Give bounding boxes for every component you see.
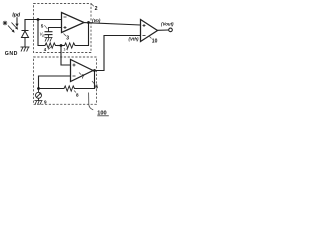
svg-text:14: 14 — [63, 47, 68, 52]
bias wire to non-inverting input — [49, 28, 62, 32]
comparator 10 — [141, 20, 158, 42]
arrowhead on source — [39, 93, 41, 95]
feedback wire to output — [77, 23, 89, 46]
output terminal circle — [169, 28, 173, 32]
svg-text:(Vout): (Vout) — [161, 22, 174, 27]
svg-text:5: 5 — [41, 23, 44, 28]
ground (source 9) — [35, 101, 43, 105]
label 8 — [74, 91, 79, 98]
plus mark comparator — [143, 24, 146, 27]
output wire — [158, 29, 169, 31]
label 3 — [64, 34, 70, 42]
op-amp 3 — [62, 13, 85, 33]
svg-text:3: 3 — [66, 36, 69, 42]
minus mark (inverting) — [64, 16, 67, 18]
label 10 — [150, 37, 158, 45]
plus mark (non-inverting) — [64, 26, 67, 29]
label 2 — [91, 4, 98, 12]
node junction dot — [37, 18, 40, 21]
node midpoint dot — [60, 44, 63, 47]
plus mark op-amp 7 — [73, 64, 76, 67]
svg-text:10: 10 — [152, 39, 158, 45]
svg-text:9: 9 — [44, 100, 47, 105]
output node dot op-amp 7 — [93, 69, 96, 72]
svg-text:2: 2 — [95, 6, 98, 12]
svg-text:(Vth): (Vth) — [129, 36, 140, 41]
wire midpoint to op-amp 7 input — [61, 46, 71, 66]
label 7 — [79, 73, 85, 81]
minus mark op-amp 7 — [73, 75, 76, 77]
svg-text:8: 8 — [76, 93, 79, 98]
node dot bottom left — [37, 87, 40, 90]
ground (photodiode) — [21, 47, 30, 52]
label 6 — [92, 81, 98, 91]
svg-text:(Vo): (Vo) — [92, 18, 101, 23]
feedback wire down from input node — [38, 20, 44, 46]
svg-text:GND: GND — [5, 51, 18, 57]
wire Vo to comparator — [84, 23, 141, 25]
photodiode PD — [22, 31, 29, 48]
wire photodiode to opamp input — [25, 20, 62, 31]
voltage source 9 — [36, 89, 42, 101]
resistor 5 — [64, 43, 77, 48]
output node dot — [87, 21, 90, 24]
bottom feedback wire — [39, 88, 64, 90]
ground (bias) — [45, 38, 53, 42]
svg-text:6: 6 — [95, 85, 98, 91]
label 100 leader — [89, 93, 94, 110]
Ipd current arrow — [15, 17, 18, 27]
bias source VB (capacitor/battery) — [45, 32, 53, 38]
svg-text:7: 7 — [82, 75, 85, 81]
wire op-amp7 output to comparator — [93, 36, 141, 71]
dashed box 6 (reference generator) — [34, 57, 97, 104]
op-amp 7 — [71, 60, 94, 82]
light symbol star — [3, 21, 7, 25]
resistor 4 — [44, 43, 57, 48]
wire resistor8 to output — [76, 71, 95, 89]
light arrow a — [8, 26, 15, 33]
minus mark comparator — [143, 35, 146, 37]
light arrow b — [12, 23, 19, 30]
wire op-amp7 inverting input to bottom — [39, 76, 71, 89]
resistor 8 — [63, 86, 76, 91]
dashed box 2 (I/V converter) — [34, 4, 92, 53]
wire between resistors — [57, 45, 64, 47]
